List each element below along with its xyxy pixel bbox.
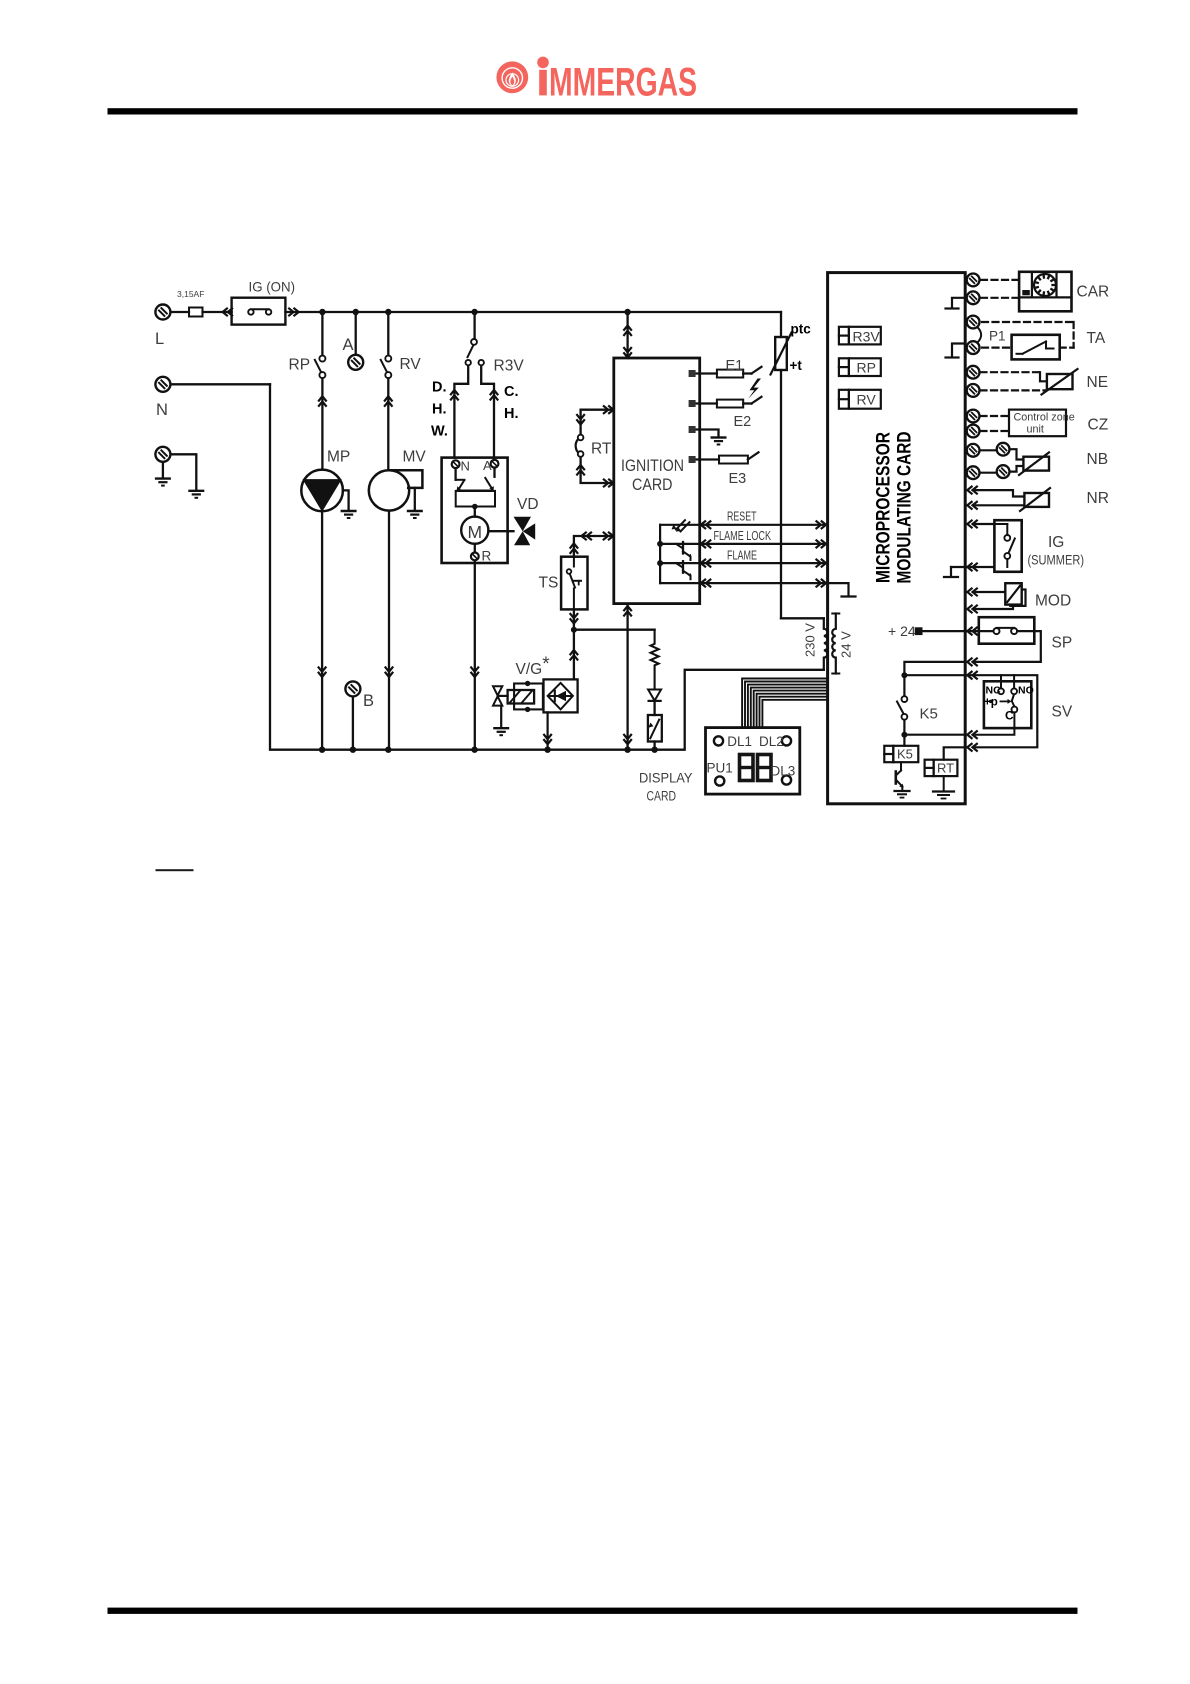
svg-text:R: R xyxy=(482,549,492,564)
svg-text:+p: +p xyxy=(984,697,998,709)
svg-text:W.: W. xyxy=(431,424,448,440)
svg-text:24 V: 24 V xyxy=(839,631,854,658)
svg-text:E1: E1 xyxy=(726,358,744,374)
svg-text:V/G*: V/G* xyxy=(516,654,551,678)
svg-text:FLAME LOCK: FLAME LOCK xyxy=(714,529,772,543)
svg-text:D.: D. xyxy=(432,380,447,396)
svg-text:NC: NC xyxy=(986,685,1002,697)
svg-text:A: A xyxy=(343,336,354,354)
svg-text:A: A xyxy=(483,458,492,473)
svg-text:RP: RP xyxy=(289,357,311,374)
svg-text:FLAME: FLAME xyxy=(727,549,757,563)
svg-text:TA: TA xyxy=(1087,330,1106,347)
svg-text:RT: RT xyxy=(937,761,954,776)
svg-text:MV: MV xyxy=(403,449,427,466)
svg-text:230 V: 230 V xyxy=(803,623,818,657)
svg-text:E2: E2 xyxy=(734,414,752,430)
svg-text:RV: RV xyxy=(857,392,877,408)
svg-text:IGNITION: IGNITION xyxy=(621,457,684,475)
svg-text:NE: NE xyxy=(1087,374,1109,391)
svg-text:MOD: MOD xyxy=(1035,593,1071,610)
svg-text:N: N xyxy=(156,401,168,419)
svg-text:DL3: DL3 xyxy=(771,764,796,779)
svg-text:RT: RT xyxy=(591,441,612,458)
svg-text:unit: unit xyxy=(1027,424,1044,436)
svg-text:MODULATING CARD: MODULATING CARD xyxy=(894,432,916,584)
svg-text:+ 24: + 24 xyxy=(888,623,916,639)
svg-text:+t: +t xyxy=(790,358,803,373)
svg-text:PU1: PU1 xyxy=(707,761,733,776)
svg-text:NB: NB xyxy=(1087,451,1109,468)
svg-text:RP: RP xyxy=(857,360,876,376)
svg-text:B: B xyxy=(363,692,374,710)
svg-text:M: M xyxy=(468,522,483,542)
svg-text:E3: E3 xyxy=(729,471,747,487)
svg-text:P1: P1 xyxy=(989,329,1006,344)
svg-text:ptc: ptc xyxy=(791,322,812,337)
svg-text:VD: VD xyxy=(517,496,539,513)
svg-text:3,15AF: 3,15AF xyxy=(177,289,204,299)
svg-text:IG: IG xyxy=(1048,534,1064,551)
svg-text:L: L xyxy=(155,330,164,348)
svg-text:N: N xyxy=(461,459,470,474)
svg-text:RV: RV xyxy=(400,356,422,373)
svg-text:CARD: CARD xyxy=(647,789,677,804)
svg-text:NO: NO xyxy=(1018,685,1034,697)
svg-text:C.: C. xyxy=(504,384,519,400)
svg-text:C: C xyxy=(1005,709,1014,723)
svg-text:K5: K5 xyxy=(897,747,913,762)
svg-text:H.: H. xyxy=(432,402,447,418)
svg-text:CARD: CARD xyxy=(632,476,673,494)
svg-text:Control zone: Control zone xyxy=(1014,412,1075,424)
svg-text:TS: TS xyxy=(539,575,559,592)
svg-text:CZ: CZ xyxy=(1088,417,1109,434)
svg-text:IG (ON): IG (ON) xyxy=(249,279,296,295)
svg-text:MP: MP xyxy=(327,449,350,466)
svg-text:CAR: CAR xyxy=(1077,284,1110,301)
svg-text:DL1: DL1 xyxy=(727,734,752,749)
svg-text:DISPLAY: DISPLAY xyxy=(639,771,693,786)
svg-text:SV: SV xyxy=(1052,704,1073,721)
svg-text:R3V: R3V xyxy=(494,358,525,375)
svg-text:RESET: RESET xyxy=(727,510,757,524)
svg-text:NR: NR xyxy=(1087,490,1109,507)
svg-text:MMERGAS: MMERGAS xyxy=(549,60,697,104)
svg-text:MICROPROCESSOR: MICROPROCESSOR xyxy=(873,432,895,583)
svg-text:K5: K5 xyxy=(920,706,938,723)
svg-text:SP: SP xyxy=(1052,635,1073,652)
svg-text:R3V: R3V xyxy=(853,329,881,345)
svg-text:DL2: DL2 xyxy=(759,734,784,749)
svg-text:(SUMMER): (SUMMER) xyxy=(1028,552,1085,568)
svg-text:H.: H. xyxy=(504,406,519,422)
